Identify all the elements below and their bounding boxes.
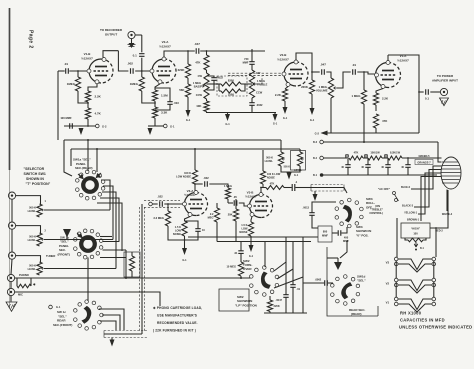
svg-text:V2: V2 (386, 282, 390, 286)
capacitor 0.1 (139, 54, 144, 57)
svg-text:MMF: MMF (343, 239, 349, 243)
svg-text:NOISE: NOISE (239, 230, 247, 234)
SW2 spoke 1 (274, 262, 286, 271)
tube V1-B (89, 59, 101, 83)
svg-text:.01: .01 (64, 62, 69, 66)
svg-text:220K: 220K (178, 68, 186, 72)
mesh v1 (109, 186, 111, 210)
pot3 wiper (42, 267, 45, 269)
svg-text:.002: .002 (127, 62, 133, 66)
dashed box mid (217, 76, 247, 96)
wire f1 (363, 157, 368, 159)
svg-text:V1: V1 (386, 301, 390, 305)
svg-text:.047: .047 (194, 42, 200, 46)
pin cathode V1-A (381, 85, 385, 89)
svg-text:“HIGH”: “HIGH” (411, 227, 421, 231)
svg-text:56K: 56K (179, 88, 185, 92)
filter cap 4 (407, 158, 409, 165)
svg-text:"0" POS.: "0" POS. (356, 233, 369, 237)
svg-text:"AC OFF": "AC OFF" (378, 187, 391, 191)
svg-text:LEVEL: LEVEL (265, 159, 274, 163)
bottom shield run (104, 330, 147, 332)
svg-text:100 K: 100 K (184, 171, 191, 175)
filter cap 3 (387, 158, 389, 165)
svg-text:B-3: B-3 (313, 141, 318, 144)
svg-text:AMPLIFIER INPUT: AMPLIFIER INPUT (432, 79, 458, 83)
resistor 220K plate load (185, 64, 190, 78)
rotary SW3 (344, 208, 355, 219)
box 800MMF (318, 226, 332, 242)
heater chain wires (395, 261, 397, 278)
SW1d wiper (340, 280, 353, 300)
capacitor .002 (131, 68, 134, 73)
svg-text:4.7K: 4.7K (95, 112, 102, 116)
ground chassis jacks (6, 302, 17, 311)
rotary SW1b (81, 237, 95, 251)
svg-text:"TREBLE": "TREBLE" (370, 208, 384, 212)
svg-text:½12AX7: ½12AX7 (277, 58, 289, 62)
svg-text:.003: .003 (174, 101, 180, 105)
mesh stub e (97, 203, 122, 210)
svg-text:47K: 47K (195, 61, 201, 65)
svg-text:WHITE-2: WHITE-2 (442, 213, 453, 216)
rotary SW2 (259, 276, 270, 287)
svg-text:NOISE: NOISE (173, 232, 181, 236)
SW1b down wire (87, 258, 89, 302)
heater feed right (435, 228, 437, 257)
svg-text:.0062: .0062 (315, 278, 322, 282)
wire cathode bottom (184, 236, 186, 248)
SW1b v126 (125, 250, 127, 278)
svg-text:Page 2: Page 2 (28, 30, 34, 49)
svg-text:1 MEG: 1 MEG (352, 94, 362, 98)
mid connect wires (207, 83, 222, 85)
svg-text:1MEG: 1MEG (130, 82, 139, 86)
wire 1MEG stubs (77, 71, 79, 77)
pin cathode V2-B (286, 83, 290, 87)
svg-text:BLUE-6: BLUE-6 (401, 186, 411, 189)
wire f2 (382, 157, 388, 159)
capacitor .1 out (292, 184, 295, 191)
wire 1MEG stubs2 (141, 71, 143, 77)
ground arrow tone mid (225, 114, 230, 121)
svg-text:500 K: 500 K (29, 206, 36, 210)
recorder jack wire (135, 34, 142, 36)
wire f3 (402, 157, 442, 159)
wire mic (15, 292, 160, 306)
svg-text:400: 400 (344, 236, 349, 240)
svg-text:PHONO: PHONO (19, 273, 29, 277)
bus line 1 (64, 139, 281, 141)
tube V1-A (376, 63, 389, 88)
lug 1 (345, 154, 348, 157)
svg-text:MIC: MIC (18, 293, 23, 297)
wire plate V1A (387, 55, 389, 61)
wire cathode (88, 84, 97, 91)
wire junction (87, 102, 89, 108)
enclosure box V3B (219, 289, 249, 311)
svg-text:LEVEL: LEVEL (28, 209, 37, 213)
resistor 47K filter (349, 156, 363, 160)
svg-text:G-1: G-1 (56, 305, 61, 309)
mesh v3 (115, 198, 117, 269)
svg-text:MEG: MEG (208, 216, 214, 220)
wire plate V2-A (164, 51, 195, 57)
svg-text:500 K: 500 K (29, 264, 36, 268)
capacitor .01 V1A (353, 69, 356, 74)
SW1b out wires (100, 236, 112, 238)
capacitor 100MMF (70, 123, 73, 128)
wire to V1A grid (357, 72, 375, 74)
heater feed left (396, 218, 398, 257)
svg-text:0.1: 0.1 (133, 54, 138, 58)
wire plate V2-B (296, 53, 312, 72)
SW1b wiper arrows (77, 233, 82, 238)
capacitor .047 V3B (234, 200, 237, 205)
ground arrow 220K (310, 108, 315, 115)
svg-text:3.3 MEG: 3.3 MEG (153, 216, 164, 220)
resistor 10K (204, 101, 209, 112)
svg-text:BLACK-3: BLACK-3 (402, 204, 414, 207)
page edge line (9, 8, 11, 170)
black wire (414, 170, 441, 208)
phono load res (16, 278, 18, 286)
pin grid V1-B (87, 69, 91, 73)
svg-text:.047: .047 (320, 63, 326, 67)
wire 0.1 branch (141, 35, 143, 52)
cable hatch (441, 162, 461, 183)
SW1a wiper arrows (78, 174, 83, 179)
resistor 15K 1W (368, 156, 382, 160)
svg-text:G-2: G-2 (315, 132, 320, 136)
wire plate junction (311, 72, 313, 81)
svg-text:✱ PHONO CARTRIDGE LOAD,: ✱ PHONO CARTRIDGE LOAD, (153, 306, 202, 310)
jack 2 (8, 222, 15, 229)
wire pot2 out (44, 239, 113, 241)
svg-text:220K: 220K (274, 304, 280, 308)
capacitor .047 tone in (196, 48, 199, 53)
cap bypass V3A (185, 221, 199, 229)
svg-text:NOISE: NOISE (267, 177, 275, 180)
grid input terminal (149, 202, 153, 206)
pin cathode V3B (250, 213, 254, 217)
ground arrow stage1 (79, 128, 84, 135)
wire C1 to grid (69, 70, 89, 72)
svg-text:G-1: G-1 (182, 259, 187, 262)
resistor 220K V2B (309, 80, 314, 94)
bus line 2 left (70, 149, 72, 166)
pin plate V3A (194, 191, 198, 195)
svg-text:100 MMF: 100 MMF (60, 116, 72, 120)
svg-text:GREEN-5: GREEN-5 (418, 155, 430, 158)
bottom bus stage2 (148, 125, 164, 127)
wire cap to shield (295, 187, 311, 189)
svg-text:½12AX7: ½12AX7 (81, 57, 93, 61)
svg-text:.0022: .0022 (256, 103, 263, 107)
svg-text:G-1: G-1 (170, 124, 175, 128)
svg-text:2.2K: 2.2K (382, 97, 389, 101)
svg-text:B-1: B-1 (313, 174, 318, 177)
ground arrow tone right (273, 114, 278, 121)
wire V3B grid in (228, 202, 233, 204)
resistor 22K (373, 93, 378, 105)
svg-text:TO POWER: TO POWER (437, 74, 454, 78)
SW2 wiper (258, 270, 273, 290)
vert shield dashes (139, 207, 141, 331)
wire to out jack (430, 91, 440, 93)
rotary SW1d (340, 285, 351, 296)
bottom run gnd (111, 338, 113, 340)
grid shield dashes (144, 200, 180, 202)
mesh h241b (217, 241, 311, 243)
level pot bottoms (281, 166, 289, 172)
svg-text:(FRONT): (FRONT) (58, 252, 70, 256)
svg-text:LOW: LOW (175, 229, 182, 233)
cap .0047 (285, 237, 287, 295)
brown wire (421, 177, 441, 222)
cable ellipse (441, 157, 461, 189)
svg-text:YELLOW-1: YELLOW-1 (404, 211, 417, 214)
svg-text:OUTPUT: OUTPUT (105, 33, 118, 37)
svg-text:"SEL": "SEL" (357, 279, 366, 283)
bottom run wire (104, 333, 142, 335)
svg-text:MMF: MMF (322, 234, 328, 238)
pin cathode V2-A (158, 80, 162, 84)
jack mic (7, 288, 14, 295)
wire phono (15, 277, 251, 279)
svg-text:100K: 100K (228, 93, 234, 97)
svg-text:B-1: B-1 (420, 247, 425, 250)
svg-text:V3: V3 (386, 261, 390, 265)
shield run wire (311, 188, 347, 194)
wire jack2 (16, 226, 41, 233)
filter cap 2 (367, 158, 369, 165)
wire grid in (152, 203, 157, 205)
svg-text:G-1: G-1 (294, 174, 299, 177)
resistor 8.2K 1W (388, 156, 402, 160)
resistor 1MEG grid (139, 77, 144, 91)
orange label box (415, 160, 433, 165)
wire plate V3B up (260, 188, 262, 193)
svg-text:500 K: 500 K (29, 235, 36, 239)
svg-text:.022: .022 (157, 195, 163, 199)
SW1d enclosure (327, 247, 378, 316)
terminal B3 (320, 140, 324, 144)
bottom bus stage1 (64, 125, 96, 127)
svg-text:"SELECTOR: "SELECTOR (24, 167, 45, 171)
AC off switch (393, 192, 396, 195)
volume pot (328, 78, 333, 98)
cap .0062 sw1d (303, 282, 324, 284)
resistor plate load V3B (262, 150, 264, 171)
rail B2 left (323, 157, 347, 159)
svg-text:10K: 10K (196, 104, 202, 108)
wire to bus2 (154, 118, 156, 126)
svg-text:CW: CW (198, 74, 203, 78)
svg-text:½12AX7: ½12AX7 (397, 59, 409, 63)
wire to V3B grid (239, 203, 249, 206)
svg-text:OFF: OFF (366, 205, 372, 209)
terminal B2 (320, 156, 324, 160)
shield run box (311, 184, 344, 186)
svg-text:CAPACITIES IN MFD: CAPACITIES IN MFD (400, 318, 445, 323)
svg-text:✱: ✱ (33, 283, 36, 287)
wire plate junction V3A (194, 184, 196, 192)
capacitor .047 out (322, 69, 325, 74)
ground arrow V3A (182, 248, 187, 255)
resistor 2.2MEG (216, 203, 218, 208)
ground arrow V2B (283, 107, 288, 114)
svg-text:(ON: (ON (375, 204, 380, 208)
ground arrow left branch (186, 110, 191, 117)
capacitor .022 grid (160, 201, 163, 206)
wire mid (154, 101, 156, 107)
tube V2-A (152, 59, 164, 83)
SW1c wiper (81, 306, 92, 325)
svg-text:1 MEG: 1 MEG (319, 85, 327, 89)
svg-text:BASS: BASS (194, 85, 201, 89)
svg-text:CONTROL): CONTROL) (369, 211, 383, 215)
wire plate V1-B (103, 51, 118, 58)
svg-text:.0047: .0047 (276, 298, 283, 302)
svg-text:ORANGE-7: ORANGE-7 (417, 161, 431, 164)
wire bass bottom (206, 99, 208, 101)
wire cathode V2-B (285, 87, 288, 90)
pin grid V2-B (282, 72, 286, 76)
svg-text:"T" POSITION": "T" POSITION" (26, 182, 51, 186)
ground arrow levels (287, 173, 292, 180)
capacitor 720MMF (251, 49, 253, 62)
level pot left (278, 152, 283, 166)
pin plate V3B (259, 193, 263, 197)
resistor 47K series (206, 51, 208, 55)
wire 10K to gnd rail (207, 112, 277, 113)
pot1 wiper (42, 209, 45, 211)
wire coupling out (209, 184, 228, 188)
svg-text:2.2: 2.2 (210, 212, 214, 216)
wire out junction (419, 91, 424, 93)
svg-text:LOW: LOW (241, 227, 248, 231)
svg-text:½12AX7: ½12AX7 (159, 45, 171, 49)
svg-text:CCW: CCW (256, 91, 263, 95)
capacitor .01 (66, 68, 69, 73)
treble wiper (253, 83, 257, 86)
mesh v2 (112, 192, 114, 240)
resistor 47K out (261, 187, 266, 189)
svg-text:.01: .01 (352, 63, 357, 67)
svg-text:VOLUME: VOLUME (316, 89, 328, 93)
resistor 1MEG V3B grid (225, 188, 230, 199)
svg-text:MMF: MMF (243, 60, 249, 64)
mesh stub d (100, 198, 119, 204)
svg-text:SEC.(FRONT): SEC.(FRONT) (53, 323, 72, 327)
svg-text:LOW NOISE: LOW NOISE (176, 175, 191, 179)
terminal G-1 stage2 (164, 124, 168, 128)
svg-text:1 MEG: 1 MEG (224, 184, 232, 188)
svg-text:G-1: G-1 (283, 116, 288, 120)
lug 3 (384, 154, 387, 157)
wire 220K to gnd (311, 94, 313, 108)
cap .01 (292, 242, 294, 285)
svg-text:.01: .01 (297, 287, 301, 291)
wire jack1 (16, 196, 41, 204)
blue wire (411, 166, 441, 189)
svg-text:G-1: G-1 (310, 118, 315, 122)
capacitor 0.1 out (426, 89, 429, 94)
treble pot (249, 70, 254, 98)
bus line 1 right (280, 140, 282, 149)
capacitor .022 coupling (205, 181, 208, 186)
level box (291, 151, 306, 171)
svg-text:220K: 220K (301, 85, 309, 89)
SW1a riser 1 (87, 140, 89, 171)
wire 3.3MEG bottom (168, 226, 185, 240)
wire cathode V1A (376, 89, 383, 94)
svg-text:RH X1000: RH X1000 (400, 311, 422, 316)
resistor 56K (185, 84, 190, 97)
wire to volume (326, 72, 331, 78)
svg-text:USE MANUFACTURER’S: USE MANUFACTURER’S (157, 314, 197, 318)
resistor 20K (235, 199, 237, 209)
bass pot (204, 73, 209, 99)
svg-text:2.2K: 2.2K (275, 93, 282, 97)
resistor 2.2K (85, 91, 90, 102)
cap 400MMF (332, 232, 338, 234)
ground recorder (131, 39, 133, 43)
svg-text:G-1: G-1 (273, 122, 278, 126)
svg-text:100: 100 (413, 232, 418, 236)
bus line 1 left (64, 140, 72, 176)
filter cap 1 (347, 158, 349, 165)
wire mid V1A (375, 105, 377, 111)
wire gnd V2B (284, 101, 286, 107)
wire 47K to fb line (375, 128, 377, 133)
jack 3 (8, 252, 15, 259)
plate rail V1A (388, 55, 419, 92)
capacitor .003 bypass (155, 88, 170, 102)
feedback line G-2 (322, 132, 419, 134)
bus line 2 (71, 148, 300, 150)
svg-text:47K: 47K (354, 151, 359, 155)
jack power out (440, 88, 447, 95)
wire cathode V3A (185, 217, 191, 222)
svg-text:SEC.(REAR): SEC.(REAR) (75, 166, 93, 170)
pot3 500K (37, 262, 42, 275)
svg-text:10 MEG: 10 MEG (226, 265, 236, 269)
high box (401, 223, 430, 238)
resistor 820K (221, 82, 241, 86)
svg-text:(REAR): (REAR) (351, 312, 362, 316)
level pot right (297, 152, 302, 166)
lug 2 (364, 154, 367, 157)
svg-text:720: 720 (244, 57, 249, 61)
wire cap to next (135, 70, 152, 72)
resistor 47K fb (373, 114, 378, 128)
mesh stub c (102, 192, 116, 198)
terminal B1 dot (320, 173, 324, 177)
svg-text:G-1: G-1 (225, 122, 230, 126)
jack recorder (128, 31, 135, 38)
wire cathode V2-A (155, 84, 160, 90)
svg-text:UNLESS OTHERWISE INDICATED: UNLESS OTHERWISE INDICATED (399, 325, 472, 330)
pin plate V2-A (162, 57, 166, 61)
svg-text:.022: .022 (203, 176, 209, 180)
wire to bottom bus (87, 119, 89, 126)
wire 1MEG V1A bottom (363, 104, 365, 142)
mesh stub b (103, 186, 113, 192)
resistor 220K SW2 (269, 296, 271, 300)
resistor 100K plate (194, 149, 196, 170)
